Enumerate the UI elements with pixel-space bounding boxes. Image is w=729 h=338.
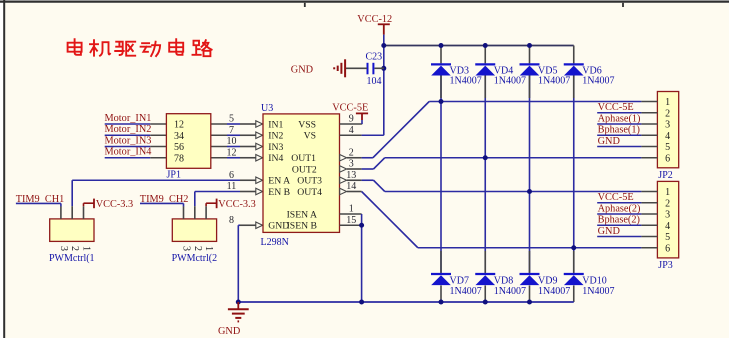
svg-text:EN B: EN B bbox=[268, 187, 290, 198]
svg-text:56: 56 bbox=[174, 142, 184, 153]
svg-text:6: 6 bbox=[665, 243, 670, 254]
svg-text:1N4007: 1N4007 bbox=[494, 286, 526, 297]
svg-text:13: 13 bbox=[346, 170, 356, 181]
svg-text:3: 3 bbox=[349, 159, 354, 170]
svg-text:104: 104 bbox=[367, 76, 382, 87]
svg-text:Motor_IN2: Motor_IN2 bbox=[105, 124, 152, 135]
svg-text:11: 11 bbox=[227, 181, 237, 192]
svg-text:PWMctrl(1: PWMctrl(1 bbox=[49, 253, 95, 264]
svg-text:VD10: VD10 bbox=[582, 275, 606, 286]
svg-text:U3: U3 bbox=[261, 103, 273, 114]
svg-text:14: 14 bbox=[346, 181, 356, 192]
svg-text:1: 1 bbox=[349, 204, 354, 215]
svg-text:OUT1: OUT1 bbox=[291, 153, 316, 164]
svg-text:78: 78 bbox=[174, 153, 184, 164]
svg-text:1: 1 bbox=[665, 97, 670, 108]
svg-text:EN A: EN A bbox=[268, 176, 290, 187]
svg-text:GND: GND bbox=[218, 326, 241, 337]
svg-text:VCC-5E: VCC-5E bbox=[332, 102, 368, 113]
svg-text:JP3: JP3 bbox=[658, 260, 672, 271]
svg-text:7: 7 bbox=[229, 125, 234, 136]
svg-text:1N4007: 1N4007 bbox=[582, 286, 614, 297]
svg-text:5: 5 bbox=[665, 142, 670, 153]
svg-text:IN3: IN3 bbox=[268, 142, 283, 153]
svg-text:VCC-3.3: VCC-3.3 bbox=[218, 199, 255, 210]
svg-text:PWMctrl(2: PWMctrl(2 bbox=[172, 253, 218, 264]
svg-text:2: 2 bbox=[665, 198, 670, 209]
svg-text:1: 1 bbox=[665, 187, 670, 198]
svg-text:L298N: L298N bbox=[261, 237, 289, 248]
svg-text:1: 1 bbox=[203, 246, 214, 251]
svg-text:JP1: JP1 bbox=[167, 169, 181, 180]
svg-text:12: 12 bbox=[174, 120, 184, 131]
svg-text:ISEN A: ISEN A bbox=[287, 209, 317, 220]
svg-text:Bphase(2): Bphase(2) bbox=[598, 215, 640, 226]
svg-text:VD9: VD9 bbox=[538, 275, 557, 286]
svg-text:Bphase(1): Bphase(1) bbox=[598, 125, 640, 136]
svg-text:Motor_IN1: Motor_IN1 bbox=[105, 113, 152, 124]
svg-text:VSS: VSS bbox=[298, 119, 316, 130]
svg-text:2: 2 bbox=[665, 108, 670, 119]
svg-text:Motor_IN4: Motor_IN4 bbox=[105, 147, 152, 158]
svg-text:10: 10 bbox=[227, 136, 237, 147]
svg-text:VD8: VD8 bbox=[494, 275, 513, 286]
svg-text:C23: C23 bbox=[366, 52, 383, 63]
svg-text:VD7: VD7 bbox=[450, 275, 469, 286]
svg-text:IN1: IN1 bbox=[268, 119, 283, 130]
svg-text:GND: GND bbox=[291, 64, 314, 75]
svg-text:IN4: IN4 bbox=[268, 153, 283, 164]
svg-text:Motor_IN3: Motor_IN3 bbox=[105, 135, 152, 146]
svg-text:ISEN B: ISEN B bbox=[287, 221, 317, 232]
svg-text:Aphase(1): Aphase(1) bbox=[598, 113, 641, 124]
svg-text:Aphase(2): Aphase(2) bbox=[598, 203, 641, 214]
svg-text:GND: GND bbox=[598, 226, 621, 237]
svg-text:9: 9 bbox=[349, 114, 354, 125]
svg-text:6: 6 bbox=[229, 170, 234, 181]
svg-text:GND: GND bbox=[598, 136, 621, 147]
svg-text:IN2: IN2 bbox=[268, 131, 283, 142]
svg-text:3: 3 bbox=[58, 246, 69, 251]
svg-text:JP2: JP2 bbox=[658, 170, 672, 181]
svg-text:VCC-5E: VCC-5E bbox=[598, 102, 634, 113]
svg-text:1: 1 bbox=[81, 246, 92, 251]
svg-text:4: 4 bbox=[665, 221, 670, 232]
svg-text:1N4007: 1N4007 bbox=[538, 286, 570, 297]
svg-text:OUT4: OUT4 bbox=[297, 187, 322, 198]
svg-text:4: 4 bbox=[349, 125, 354, 136]
svg-text:5: 5 bbox=[229, 114, 234, 125]
svg-text:6: 6 bbox=[665, 153, 670, 164]
svg-text:15: 15 bbox=[346, 215, 356, 226]
svg-text:1N4007: 1N4007 bbox=[450, 286, 482, 297]
svg-text:OUT3: OUT3 bbox=[297, 176, 322, 187]
svg-text:3: 3 bbox=[665, 210, 670, 221]
svg-text:2: 2 bbox=[192, 246, 203, 251]
svg-text:3: 3 bbox=[665, 120, 670, 131]
svg-text:VCC-5E: VCC-5E bbox=[598, 192, 634, 203]
svg-text:VCC-3.3: VCC-3.3 bbox=[96, 199, 133, 210]
svg-text:5: 5 bbox=[665, 232, 670, 243]
svg-text:VS: VS bbox=[304, 131, 316, 142]
svg-text:3: 3 bbox=[181, 246, 192, 251]
svg-text:12: 12 bbox=[227, 147, 237, 158]
svg-text:4: 4 bbox=[665, 131, 670, 142]
svg-text:34: 34 bbox=[174, 131, 184, 142]
svg-text:1N4007: 1N4007 bbox=[450, 76, 482, 87]
svg-text:8: 8 bbox=[229, 215, 234, 226]
svg-text:2: 2 bbox=[349, 147, 354, 158]
svg-text:1N4007: 1N4007 bbox=[494, 76, 526, 87]
svg-text:1N4007: 1N4007 bbox=[538, 76, 570, 87]
svg-text:2: 2 bbox=[69, 246, 80, 251]
svg-text:OUT2: OUT2 bbox=[292, 164, 317, 175]
svg-text:1N4007: 1N4007 bbox=[582, 76, 614, 87]
